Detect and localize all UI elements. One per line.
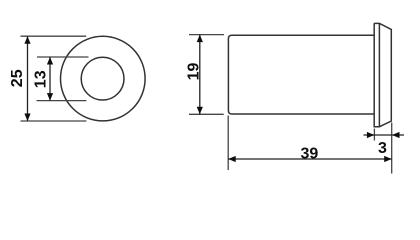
svg-text:19: 19 <box>186 63 203 81</box>
svg-text:3: 3 <box>378 140 387 157</box>
svg-text:25: 25 <box>9 69 26 87</box>
svg-text:13: 13 <box>32 70 49 88</box>
svg-text:39: 39 <box>301 146 319 163</box>
